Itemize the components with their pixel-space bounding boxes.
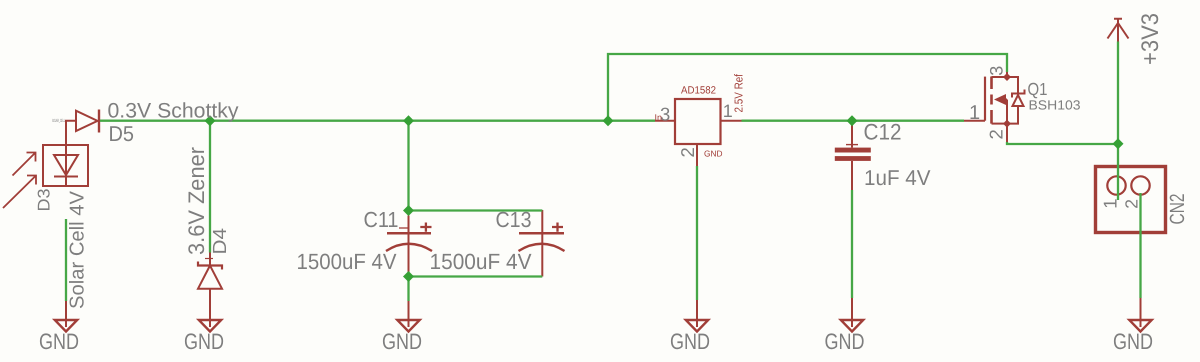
capacitor C13 top plate bbox=[519, 232, 564, 235]
connector CN2 pin 1 circle bbox=[1107, 176, 1125, 194]
svg-text:+3V3: +3V3 bbox=[1137, 13, 1164, 65]
ground symbol C12 bbox=[841, 320, 863, 332]
svg-text:GND: GND bbox=[39, 329, 79, 354]
svg-text:GND: GND bbox=[825, 329, 865, 354]
junction bus-C12 bbox=[847, 115, 858, 126]
junction bus-top wire bbox=[603, 115, 614, 126]
solar cell D3 internal diode bbox=[54, 145, 78, 186]
svg-text:GND: GND bbox=[704, 148, 723, 158]
junction cap bottom link bbox=[403, 271, 414, 282]
svg-text:AD1582: AD1582 bbox=[681, 84, 716, 96]
connector CN2 pin 2 gnd pin bbox=[1140, 298, 1142, 327]
transistor Q1 gate pin bbox=[964, 120, 985, 122]
AD1582 pin 1 bbox=[721, 120, 742, 122]
solar cell D3 light arrow 2 bbox=[3, 176, 36, 209]
ground symbol D3 bbox=[55, 320, 77, 332]
solar cell D3 light arrow 1 bbox=[13, 153, 36, 176]
svg-text:Q1: Q1 bbox=[1028, 79, 1048, 99]
transistor Q1 drain link bbox=[992, 76, 1008, 78]
capacitor C13 plus sign bbox=[552, 223, 563, 232]
capacitor C11 top plate bbox=[387, 232, 431, 235]
transistor Q1 gate bar bbox=[984, 77, 986, 121]
wire CN2 pin2 gnd bbox=[1139, 193, 1141, 298]
wire top feedback bbox=[608, 54, 1007, 121]
svg-text:3: 3 bbox=[986, 66, 1006, 76]
tiny tick on D4 pin bbox=[205, 258, 213, 260]
capacitor C11 plus sign bbox=[420, 223, 431, 232]
transistor Q1 bulk line bbox=[1006, 100, 1007, 124]
ground pin AD1582 bbox=[696, 295, 698, 327]
wire main bus left bbox=[100, 120, 655, 122]
diode D5 cathode bar bbox=[98, 110, 100, 133]
transistor Q1 source pin bbox=[1006, 124, 1008, 143]
svg-text:GND: GND bbox=[1113, 329, 1153, 354]
wire cap bottom link bbox=[409, 275, 543, 277]
capacitor C13 bottom plate arc bbox=[519, 244, 565, 251]
svg-text:2: 2 bbox=[677, 147, 698, 157]
svg-text:GND: GND bbox=[382, 329, 422, 354]
ground pin C11 bbox=[408, 300, 410, 327]
capacitor C12 bottom pin bbox=[851, 161, 853, 190]
svg-text:C13: C13 bbox=[496, 207, 532, 232]
connector CN2 box bbox=[1096, 167, 1166, 233]
transistor Q1 drain pin bbox=[1006, 72, 1008, 77]
wire cap top link bbox=[409, 209, 543, 211]
wire cap gnd bbox=[407, 277, 409, 302]
ground symbol AD1582 bbox=[686, 320, 708, 332]
svg-text:D5: D5 bbox=[109, 122, 135, 146]
ground pin C12 bbox=[851, 297, 853, 327]
svg-text:1: 1 bbox=[969, 102, 980, 124]
voltage reference U1 AD1582 box bbox=[675, 99, 721, 144]
svg-text:1uF 4V: 1uF 4V bbox=[864, 166, 931, 190]
svg-text:Solar Cell 4V: Solar Cell 4V bbox=[67, 190, 89, 309]
wire bus right of AD1582 bbox=[742, 120, 965, 122]
svg-text:2: 2 bbox=[1122, 199, 1142, 209]
svg-text:In: In bbox=[655, 113, 663, 123]
svg-text:C12: C12 bbox=[864, 120, 902, 145]
svg-text:0.3V Schottky: 0.3V Schottky bbox=[108, 100, 239, 123]
svg-text:GND: GND bbox=[184, 329, 224, 354]
wire zener branch bbox=[209, 121, 211, 253]
transistor Q1 body diode branch bbox=[1007, 77, 1018, 124]
svg-text:1: 1 bbox=[1099, 199, 1120, 209]
transistor Q1 bulk arrow bbox=[994, 94, 1006, 105]
wire cap branch down bbox=[407, 121, 409, 211]
transistor Q1 source link bbox=[992, 123, 1008, 125]
ground symbol D4 bbox=[199, 320, 221, 332]
capacitor C11 bottom plate arc bbox=[386, 244, 432, 251]
AD1582 pin 3 bbox=[655, 120, 675, 122]
wire D3 gnd bbox=[65, 219, 67, 301]
transistor Q1 body diode triangle bbox=[1013, 95, 1024, 106]
capacitor C11 bottom pin bbox=[408, 235, 410, 273]
zener D4 cathode bar with hooks bbox=[198, 262, 222, 270]
capacitor C12 top pin bbox=[851, 124, 853, 148]
diode D5 anode link and D3 top pin bbox=[66, 121, 76, 145]
solar cell D3 box bbox=[43, 145, 88, 186]
svg-text:SOLAR_CELL: SOLAR_CELL bbox=[52, 118, 65, 123]
svg-text:BSH103: BSH103 bbox=[1029, 97, 1081, 112]
svg-text:C11: C11 bbox=[364, 207, 399, 232]
junction bus-zener bbox=[205, 115, 216, 126]
AD1582 pin 2 bbox=[696, 144, 698, 166]
connector CN2 pin 2 circle bbox=[1131, 176, 1149, 194]
transistor Q1 channel segments bbox=[990, 77, 993, 124]
capacitor C12 tiny tick bbox=[846, 144, 858, 146]
svg-text:2: 2 bbox=[985, 129, 1006, 139]
wire Q1 source to rail bbox=[1007, 142, 1118, 144]
capacitor C13 bottom pin bbox=[541, 235, 543, 277]
tiny tick on C11 pin bbox=[399, 227, 408, 229]
wire 3V3 rail bbox=[1117, 42, 1119, 201]
svg-text:1500uF 4V: 1500uF 4V bbox=[430, 249, 532, 274]
junction cap top link bbox=[403, 205, 414, 216]
transistor Q1 body diode cathode bar bbox=[1012, 90, 1025, 98]
junction 3V3 rail bbox=[1113, 138, 1124, 149]
svg-text:1500uF 4V: 1500uF 4V bbox=[297, 249, 397, 274]
ground pin D3 bbox=[65, 300, 67, 327]
wire AD1582 gnd bbox=[696, 166, 698, 300]
ground symbol C11 bbox=[397, 320, 419, 332]
capacitor C11 top pin bbox=[408, 216, 410, 233]
svg-text:D4: D4 bbox=[210, 228, 231, 255]
zener D4 bottom pin bbox=[209, 289, 211, 327]
zener D4 top pin bbox=[209, 253, 211, 266]
ground symbol CN2 bbox=[1129, 320, 1151, 332]
capacitor C13 top pin bbox=[541, 210, 543, 232]
capacitor C12 plates bbox=[835, 148, 871, 153]
svg-text:3.6V Zener: 3.6V Zener bbox=[184, 147, 209, 255]
transistor Q1 source junction bbox=[1003, 120, 1011, 128]
transistor Q1 drain junction bbox=[1003, 73, 1011, 81]
svg-text:D3: D3 bbox=[35, 189, 54, 212]
diode D5 triangle bbox=[76, 111, 98, 131]
junction bus-caps bbox=[403, 115, 414, 126]
svg-text:2.5V Ref: 2.5V Ref bbox=[734, 73, 746, 112]
wire C12 gnd bbox=[851, 190, 853, 298]
svg-text:CN2: CN2 bbox=[1166, 194, 1189, 225]
supply +3V3 arrow bbox=[1108, 19, 1129, 42]
svg-text:1: 1 bbox=[723, 101, 733, 121]
svg-text:GND: GND bbox=[670, 329, 710, 354]
zener D4 triangle bbox=[198, 266, 222, 289]
